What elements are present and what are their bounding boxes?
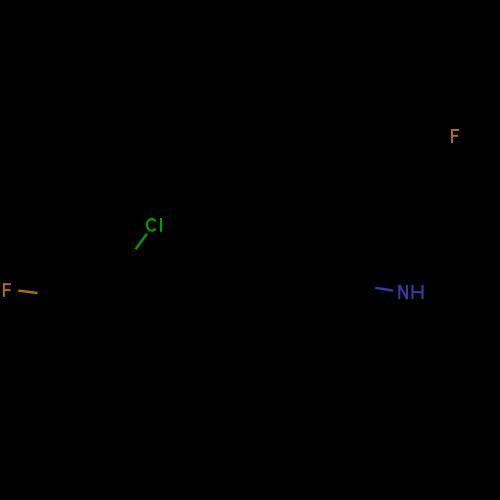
- atom label NH: [399, 285, 422, 299]
- atom label F (left): [3, 283, 11, 297]
- bond C-N (N-side half): [375, 288, 393, 291]
- atom label F (top right): [451, 129, 459, 143]
- atom label Cl: [147, 218, 161, 232]
- bond C-F left (F-side half): [18, 291, 37, 293]
- bond C-Cl (Cl-side half): [136, 234, 148, 250]
